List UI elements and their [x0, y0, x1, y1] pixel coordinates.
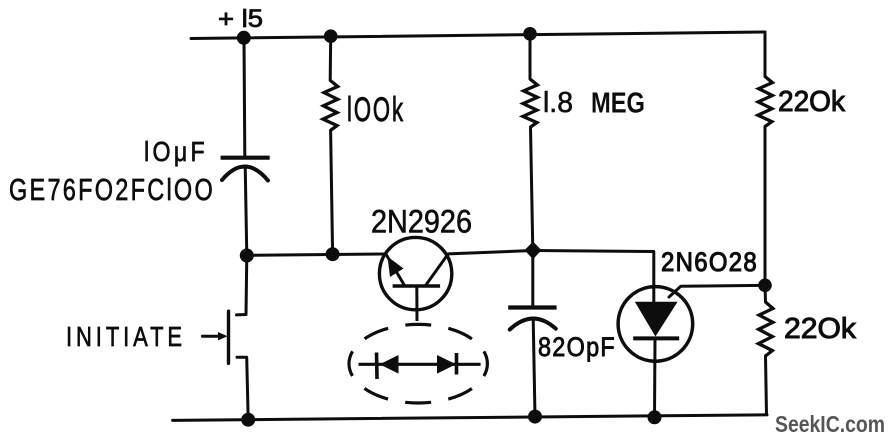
transistor Q1 emitter arrowhead — [388, 257, 404, 278]
dashed ellipse diode enclosure — [349, 324, 487, 403]
wire switch top lead — [237, 256, 247, 315]
transistor Q1 collector line — [425, 254, 448, 286]
wire 220k bottom to rail — [766, 356, 767, 415]
capacitor C2 820pF top plate — [508, 305, 556, 309]
svg-text:82OpF: 82OpF — [538, 332, 616, 362]
junction dot gate / 220k — [758, 279, 772, 293]
resistor R2 1.8MEG — [523, 79, 538, 127]
resistor R4 220k bottom — [758, 302, 773, 356]
svg-text:SeekIC.com: SeekIC.com — [775, 411, 885, 437]
junction dot bottom at switch — [241, 413, 255, 427]
diode D2 right triangle — [437, 355, 456, 374]
resistor R3 220k top — [758, 77, 773, 127]
capacitor C1 10uF top plate — [221, 156, 270, 160]
wire node to PUT anode — [533, 251, 654, 303]
PUT Q2 cathode bar — [633, 336, 679, 340]
wire left capacitor branch from rail — [243, 39, 247, 157]
wire 1.8MEG branch from rail — [529, 34, 532, 79]
capacitor C1 10uF curved plate — [222, 167, 268, 181]
switch S1 actuator lead from label — [202, 335, 222, 338]
wire collector to node — [448, 251, 533, 254]
diode D2 cathode bar — [455, 353, 459, 375]
wire gate junction to 220k bottom — [764, 285, 768, 302]
junction dot bottom at 820pF — [528, 410, 542, 424]
svg-text:2N6O28: 2N6O28 — [661, 247, 758, 277]
wire 1.8MEG bottom lead to collector node — [531, 127, 533, 250]
svg-text:INITIATE: INITIATE — [66, 321, 186, 352]
svg-text:l.8: l.8 — [543, 87, 573, 119]
resistor R1 100k — [323, 80, 338, 130]
diode D1 left triangle — [380, 355, 399, 374]
wire bottom ground rail — [173, 415, 767, 421]
svg-text:+ l5: + l5 — [218, 5, 263, 33]
wire emitter horizontal — [247, 254, 386, 255]
wire 220k top to gate junction — [764, 127, 767, 286]
junction dot top at 100k — [324, 29, 338, 43]
junction dot 100k bottom — [326, 247, 340, 261]
wire right branch top (rail corner down to 220k) — [764, 32, 767, 77]
capacitor C2 820pF curved plate — [510, 319, 556, 330]
wire 100k bottom lead — [331, 130, 333, 254]
wire PUT gate lead — [669, 285, 765, 297]
svg-text:2N2926: 2N2926 — [371, 204, 472, 240]
wire capacitor to left mid junction — [245, 166, 247, 256]
junction dot top-left under +15 — [237, 31, 251, 45]
diode pair horizontal line — [359, 363, 481, 366]
switch S1 actuator arrowhead — [218, 332, 228, 340]
svg-text:22Ok: 22Ok — [784, 313, 857, 345]
junction dot top at 1.8MEG — [523, 27, 537, 41]
PUT Q2 anode triangle — [635, 302, 678, 337]
svg-text:lOOk: lOOk — [347, 91, 405, 129]
svg-text:22Ok: 22Ok — [778, 86, 845, 118]
transistor Q1 2N2926 circle — [379, 237, 451, 309]
transistor Q1 base bar — [393, 284, 441, 287]
junction diamond collector node — [525, 242, 542, 260]
svg-text:GE76FO2FClOO: GE76FO2FClOO — [9, 172, 215, 207]
transistor Q1 emitter line — [386, 254, 405, 286]
transistor Q1 base lead — [415, 286, 418, 321]
junction dot bottom at PUT — [648, 410, 662, 424]
svg-text:lOμF: lOμF — [144, 136, 208, 167]
wire top +15 rail — [191, 32, 765, 39]
diode D1 cathode bar — [375, 353, 379, 380]
wire switch bottom lead — [237, 357, 248, 420]
wire PUT cathode lead — [653, 339, 657, 418]
PUT Q2 2N6028 circle — [618, 287, 693, 362]
junction dot left mid — [240, 249, 254, 263]
switch S1 actuator bar — [227, 311, 230, 363]
wire 820pF to bottom rail — [533, 319, 535, 417]
wire 100k branch from rail — [329, 36, 333, 80]
svg-text:MEG: MEG — [591, 88, 645, 120]
wire node to 820pF capacitor — [531, 251, 534, 308]
